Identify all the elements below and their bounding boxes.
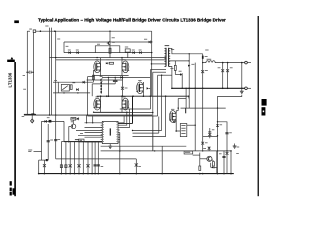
diode D1 — [68, 51, 70, 54]
junction grail a — [119, 173, 121, 175]
junction top rail b — [54, 30, 56, 32]
resistor R8 — [70, 85, 72, 90]
label ladder — [101, 165, 104, 168]
junction ladder 4 — [74, 173, 76, 175]
resistor RG1 — [109, 62, 113, 64]
wire Q6 feed2 — [178, 98, 186, 100]
junction v195 a — [194, 88, 196, 90]
junction node A b — [115, 77, 116, 78]
wire left return — [87, 77, 89, 116]
label C5 — [229, 131, 232, 134]
wire nest low c — [133, 136, 166, 138]
wire opto drop — [57, 82, 59, 93]
left rule bar — [14, 62, 16, 196]
junction rail A c — [121, 57, 122, 58]
label logic — [80, 132, 83, 135]
label bus top — [45, 25, 48, 28]
glyph ladder s1 — [69, 164, 72, 167]
ic U1 outline — [102, 121, 118, 143]
label Q7b — [112, 41, 115, 44]
junction ladder 3 — [69, 173, 71, 175]
wire input label lead — [34, 151, 42, 153]
junction v44 — [44, 173, 46, 175]
wire rail 146 — [101, 145, 187, 147]
label Q5 arrow — [147, 87, 149, 89]
label Z3 — [205, 141, 208, 144]
wire ladder v5 — [78, 142, 80, 174]
wire nest v3 — [152, 72, 154, 151]
label box U4 — [184, 151, 193, 154]
diode D3 — [132, 51, 134, 54]
capacitor C8 — [54, 139, 57, 141]
transformer T1 ticks — [164, 47, 166, 49]
junction nest c — [161, 75, 162, 76]
wire mid bridge vert — [107, 77, 109, 96]
label margin b — [22, 115, 25, 118]
wire nest mid c — [88, 115, 158, 117]
wire snubber feed — [174, 61, 176, 66]
label D4 — [139, 49, 142, 52]
wire input right drop — [33, 32, 35, 114]
wire v136 — [135, 159, 137, 174]
right page number blob upper — [262, 99, 267, 106]
label T1b — [171, 48, 174, 51]
label T1 — [165, 44, 170, 47]
label supply — [57, 38, 60, 41]
wire output cap branch — [241, 63, 243, 89]
svg-text:Typical Application – High Vol: Typical Application – High Voltage Half/… — [38, 18, 226, 23]
wire Q6 feed — [188, 96, 190, 98]
label C1 — [218, 66, 221, 69]
wire R9 to D7 — [174, 70, 176, 74]
wire logic h2 — [78, 135, 102, 137]
junction ocb top — [241, 62, 243, 64]
resistor R9 snubber — [174, 65, 176, 70]
diode D9 — [212, 166, 214, 168]
footer code block d — [13, 188, 15, 194]
mosfet Q4 — [122, 98, 129, 110]
wire Q1 drain — [100, 58, 102, 61]
wire ladder v1 — [60, 142, 62, 174]
junction C5 rail — [226, 150, 227, 151]
junction lower src b — [126, 112, 127, 113]
wire vertical supply — [55, 31, 57, 115]
mosfet Q6 — [169, 111, 176, 123]
label Z2 — [125, 87, 128, 90]
mosfet Q1 — [94, 61, 101, 73]
junction rail A a — [55, 57, 56, 58]
ground output — [240, 90, 244, 92]
junction B rail g — [165, 95, 167, 97]
wire C5 branch — [218, 122, 228, 174]
wire v64 — [63, 121, 65, 141]
footer code block c — [10, 192, 12, 196]
junction grail b — [136, 173, 138, 175]
wire ladder v2 — [65, 142, 67, 174]
wire v154 lower — [152, 116, 154, 151]
wire logic rail — [64, 141, 102, 143]
transistor Q11 — [207, 156, 212, 161]
wire ladder v4 — [74, 142, 76, 174]
wire h108 — [181, 107, 226, 109]
junction bus l1 b — [92, 122, 93, 123]
junction ladder 2 — [65, 173, 67, 175]
wire gnd stub — [241, 88, 243, 91]
label D2 — [76, 49, 79, 52]
ground right small — [233, 145, 237, 147]
diode DG2 — [106, 95, 108, 97]
junction input bottom — [31, 113, 34, 115]
label v136 — [138, 165, 141, 168]
right page number blob lower — [262, 107, 266, 115]
junction Q7 top — [109, 31, 110, 32]
transformer T1 primary — [165, 48, 167, 67]
wire upper sources bus — [94, 75, 129, 77]
junction nest mid b — [152, 112, 153, 113]
junction jog a — [217, 107, 218, 108]
junction B rail h — [188, 95, 190, 97]
junction B rail a — [100, 95, 102, 97]
wire T1 sec bottom lead — [169, 67, 172, 89]
label input margin — [28, 149, 32, 152]
wire mid power rail — [24, 114, 152, 116]
junction lower src a — [93, 112, 94, 113]
wire U1 down — [119, 132, 121, 173]
junction logic a — [68, 141, 69, 142]
transistor Q10 — [71, 124, 76, 129]
capacitor C2 — [227, 63, 229, 89]
wire Q10 drop — [68, 126, 70, 141]
terminal OUT+ — [245, 61, 248, 64]
wire ladder v9 — [94, 142, 96, 174]
wire U1 bus l1 — [85, 122, 103, 124]
glyph v44 — [43, 164, 46, 167]
label D3 — [132, 49, 135, 52]
junction grail c — [202, 173, 204, 175]
junction out rail b — [227, 62, 229, 64]
label Z1 — [205, 69, 208, 72]
terminal OUT- — [245, 87, 248, 90]
wire stub left — [39, 159, 49, 161]
glyph ladder c2 — [97, 164, 100, 166]
label ladder top — [75, 138, 79, 141]
glyph ladder d2 — [65, 165, 67, 168]
wire rail 159 — [56, 158, 137, 160]
section tab tick — [7, 60, 15, 62]
wire rail3 — [64, 52, 152, 54]
footer code block a — [10, 181, 12, 185]
wire node A rail — [102, 76, 150, 78]
junction v231 top — [230, 150, 232, 152]
ic U1 pin numbers — [102, 121, 105, 124]
junction rail C — [151, 63, 152, 64]
wire nest corner a — [149, 70, 151, 78]
label Q7 — [112, 36, 115, 39]
wire upper sources left — [88, 76, 95, 78]
label startup — [219, 152, 222, 155]
wire bold bus — [132, 96, 134, 123]
wire U4 out — [193, 154, 200, 156]
wire Q2 drain — [121, 58, 123, 61]
wire rail2 — [64, 41, 149, 43]
junction ret c — [222, 88, 224, 90]
capacitor C1 — [222, 63, 224, 89]
label loop — [97, 43, 100, 46]
label margin a — [23, 88, 26, 91]
label C3 — [50, 139, 53, 142]
label Q11 — [203, 147, 206, 150]
wire ground rail bold — [39, 173, 234, 175]
tick stub — [46, 159, 48, 161]
wire nest v2 — [149, 77, 151, 109]
wire U1 right r3 — [120, 109, 130, 128]
label rail2 — [66, 45, 69, 48]
transformer T1 secondary — [168, 48, 170, 67]
inductor L1 — [203, 61, 245, 63]
junction opto a — [63, 92, 64, 93]
junction node A c — [122, 77, 123, 78]
wire nest v4 — [157, 75, 159, 116]
wire opto stub — [53, 81, 58, 83]
label startup2 — [236, 152, 239, 155]
diode DG1 — [106, 62, 108, 64]
wire ladder v10 — [97, 142, 99, 174]
junction B rail c — [122, 95, 124, 97]
junction out rail a — [222, 62, 224, 64]
junction grail d — [217, 173, 219, 175]
diode D7 snubber — [180, 73, 182, 76]
junction ocb bot — [241, 88, 243, 90]
wire ladder top — [61, 140, 102, 142]
junction node A a — [108, 77, 109, 78]
label Q12 — [100, 75, 103, 78]
wire bold bus corner — [118, 123, 133, 125]
wire logic h1 — [76, 130, 102, 132]
label C2 — [230, 66, 233, 69]
wire v120ext — [119, 146, 121, 151]
junction Q6 source — [175, 130, 177, 132]
node stem — [31, 115, 33, 119]
wire v202 low — [202, 88, 204, 151]
wire rail A — [50, 57, 167, 59]
wire nest v5 — [161, 75, 163, 130]
label D5 — [144, 38, 147, 41]
wire node A2 rail — [87, 79, 123, 81]
glyph ladder c1 — [94, 164, 97, 166]
glyph ladder s2 — [77, 164, 80, 167]
transistor Q7 — [107, 42, 109, 45]
wire riser a — [86, 115, 88, 123]
resistor RG3 — [93, 75, 95, 79]
wire D7 to rail — [181, 75, 183, 89]
wire vB1 — [47, 124, 49, 160]
wire v186 — [185, 88, 187, 108]
capacitor C4 — [209, 128, 211, 138]
terminal VIN+ — [33, 30, 36, 33]
junction v38 — [38, 173, 40, 175]
wire riser b — [92, 116, 94, 123]
junction ladder 10 — [98, 173, 100, 175]
wire v38 — [38, 160, 40, 174]
wire return jog — [218, 95, 242, 174]
glyph C6 — [226, 152, 229, 155]
junction opto b — [77, 92, 78, 93]
zener stack ZD1 — [101, 82, 102, 84]
wire ladder v8 — [91, 142, 93, 174]
glyph ladder s3 — [86, 164, 89, 167]
junction ret d — [227, 88, 229, 90]
zener Z1 — [201, 70, 204, 73]
wire nest low a — [133, 130, 162, 132]
junction B rail e — [132, 95, 134, 97]
wire top rail HV — [36, 30, 152, 32]
label OUT+ — [205, 49, 208, 52]
label D7 — [179, 70, 182, 73]
mosfet Q5 — [137, 82, 144, 94]
label right gnd — [237, 146, 240, 149]
wire Q4 drain — [121, 96, 123, 98]
wire Q1 gate riser — [92, 70, 94, 82]
junction v162 — [161, 173, 163, 175]
label D8 — [205, 55, 208, 58]
wire right top drop — [151, 31, 153, 64]
wire nest top a — [150, 69, 166, 71]
junction ladder 5 — [78, 173, 80, 175]
wire U1 right r2 — [120, 113, 127, 126]
wire U1 bus l2 — [85, 127, 103, 129]
wire nest v6 — [165, 96, 167, 136]
wire input bottom join — [24, 113, 36, 115]
wire nest top b — [153, 71, 166, 73]
wire U5 drop — [72, 120, 74, 124]
gate box — [79, 139, 84, 142]
wire Q3 drain — [100, 96, 102, 98]
resistor R7 — [109, 48, 111, 53]
junction ret b — [202, 88, 204, 90]
diode D14 — [83, 81, 85, 84]
wire ladder v3 — [69, 142, 71, 174]
wire vA — [41, 121, 43, 160]
section tab arrow — [11, 57, 14, 60]
capacitor C7 — [114, 77, 116, 80]
capacitor CIN plates — [26, 71, 29, 73]
wire opto bottom — [53, 92, 90, 94]
junction grail e — [223, 173, 225, 175]
diode D6 — [76, 88, 78, 91]
diode D10 — [216, 124, 219, 126]
wire v92 — [91, 84, 93, 96]
diode D11 on rail — [120, 76, 122, 79]
diode D4 — [139, 51, 141, 54]
junction ret a3 — [185, 88, 186, 89]
transistor Q7 column — [109, 31, 111, 57]
diode D13 — [77, 118, 79, 121]
svg-text:LT1336: LT1336 — [8, 72, 13, 87]
mosfet Q3 — [94, 98, 101, 110]
junction C5 top — [217, 121, 218, 122]
wire Q6 source — [176, 122, 180, 131]
wire box B2 — [180, 124, 187, 137]
wire lower sources bus — [94, 111, 129, 113]
transistor Q12 blob — [100, 79, 102, 81]
wire Q6 gate circle — [173, 121, 175, 123]
junction v231 bot — [230, 173, 232, 175]
zener Z2 — [122, 77, 124, 96]
ic U1 pins right — [118, 122, 120, 124]
diode D12 — [44, 120, 46, 123]
wire node A3 rail — [92, 83, 115, 85]
label RG1 — [106, 58, 109, 61]
component tick 186 — [185, 108, 187, 113]
wire Q5 source — [142, 94, 144, 97]
mosfet Q2 — [122, 61, 129, 73]
wire Q11 base — [200, 158, 207, 160]
junction mid rail a — [49, 114, 50, 115]
wire U1 bus l3 — [85, 131, 103, 133]
wire C4 link — [203, 136, 218, 138]
wire v162 — [161, 146, 163, 173]
footer code block b — [10, 188, 12, 192]
zener Z3 — [201, 142, 204, 145]
label + VIN — [29, 28, 32, 31]
junction right drop b — [151, 52, 152, 53]
wire v189 — [188, 54, 190, 108]
capacitor C3 — [47, 140, 50, 142]
opto U3 box — [61, 84, 69, 91]
wire nest low b — [133, 132, 159, 134]
junction ladder 9 — [94, 173, 96, 175]
wire out return bold — [172, 87, 245, 89]
junction jog c — [217, 150, 218, 151]
junction top rail a — [40, 30, 42, 32]
transistor Q9 mark — [188, 65, 190, 67]
wire U1 right r1 — [120, 116, 125, 123]
junction B rail f — [150, 95, 152, 97]
junction ladder 8 — [91, 173, 93, 175]
resistor R12 — [199, 166, 201, 170]
resistor R13 — [212, 160, 213, 161]
wire rail C — [151, 63, 166, 65]
junction rail A b — [96, 57, 97, 58]
junction Q5 source — [143, 95, 145, 97]
wire input left drop — [26, 31, 28, 114]
wire rail B — [56, 59, 166, 61]
junction jog b — [217, 135, 218, 136]
wire ladder v6 — [82, 142, 84, 174]
label D12 — [47, 116, 50, 119]
junction bus l1 a — [86, 122, 87, 123]
junction ind in — [202, 62, 203, 63]
right rule — [258, 16, 259, 196]
wire ladder v7 — [87, 142, 89, 174]
wire nest mid a — [120, 108, 151, 110]
glyph startup caps — [222, 155, 225, 157]
wire rail 151 — [101, 150, 231, 152]
junction Q6 gate — [178, 107, 179, 108]
wire nest mid b — [94, 112, 153, 114]
junction sec lead — [189, 53, 190, 54]
junction ladder 1 — [61, 173, 63, 175]
junction sec bottom — [171, 88, 173, 90]
wire RC tap — [125, 49, 130, 52]
diode D2 — [76, 51, 78, 54]
junction B rail d — [121, 95, 123, 97]
label opto — [54, 79, 57, 82]
wire vB2 — [55, 115, 57, 159]
junction 151 b — [202, 150, 203, 151]
glyph v136 — [135, 163, 138, 166]
junction right drop a — [151, 41, 152, 42]
